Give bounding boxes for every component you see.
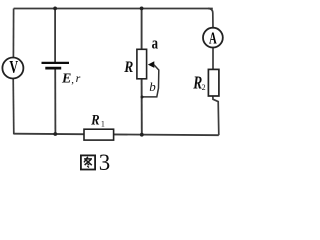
svg-text:R: R xyxy=(123,59,133,76)
svg-text:3: 3 xyxy=(99,150,111,175)
svg-text:R: R xyxy=(90,112,99,128)
svg-text:,: , xyxy=(71,74,74,86)
svg-text:b: b xyxy=(149,79,156,94)
svg-text:1: 1 xyxy=(101,119,105,128)
svg-text:a: a xyxy=(152,35,159,53)
svg-text:E: E xyxy=(61,71,71,86)
svg-text:2: 2 xyxy=(202,83,206,92)
svg-text:A: A xyxy=(209,29,217,48)
svg-text:V: V xyxy=(9,58,18,78)
svg-text:r: r xyxy=(76,71,81,85)
